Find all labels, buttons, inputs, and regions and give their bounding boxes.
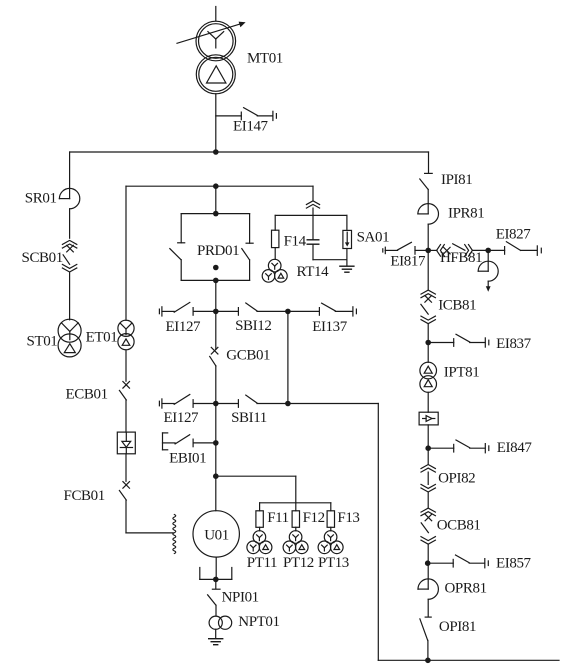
tap-changer arrow MT01 bbox=[177, 22, 246, 44]
bus 2 bbox=[126, 185, 313, 187]
svg-text:PRD01: PRD01 bbox=[197, 243, 239, 259]
PRD01 feeder wire bbox=[215, 186, 217, 213]
svg-text:RT14: RT14 bbox=[297, 264, 330, 280]
disconnector SBI11 bbox=[216, 395, 288, 407]
node neutral bbox=[213, 577, 219, 583]
wire GCB01 to SBI11 row bbox=[215, 366, 217, 404]
transformer ST01 bbox=[58, 319, 81, 357]
svg-text:EI127: EI127 bbox=[164, 410, 200, 426]
label NPI01 bbox=[222, 589, 259, 605]
capacitor C bbox=[307, 240, 319, 260]
wire ECB01 to rectifier bbox=[125, 400, 127, 432]
label SCB01 bbox=[22, 250, 63, 266]
wire row1 to row2 right bbox=[287, 311, 289, 403]
svg-text:FCB01: FCB01 bbox=[64, 488, 105, 504]
label FCB01 bbox=[64, 488, 105, 504]
wire HFB row to ICB81 bbox=[427, 250, 429, 289]
node EI847 row bbox=[425, 445, 431, 451]
wire bus2 to ET01 bbox=[125, 186, 127, 320]
svg-text:IPT81: IPT81 bbox=[444, 365, 480, 381]
breaker ICB81 bbox=[421, 290, 436, 324]
transformer NPT01 bbox=[209, 616, 232, 629]
wire EI837 row to IPT81 bbox=[427, 343, 429, 363]
label F11 bbox=[267, 510, 289, 526]
wire top lead bbox=[215, 7, 217, 22]
wire bus to SR01 bbox=[69, 152, 71, 199]
label EI827 bbox=[496, 227, 532, 243]
label EI127 row1 bbox=[166, 319, 202, 335]
wire bus2 to SA branch bbox=[312, 186, 314, 200]
label EI137 bbox=[312, 319, 348, 335]
node EI837 row bbox=[425, 340, 431, 346]
label F13 bbox=[337, 510, 359, 526]
svg-text:SA01: SA01 bbox=[357, 229, 390, 245]
svg-text:EI147: EI147 bbox=[233, 118, 269, 134]
wire EI857 row to OPR81 bbox=[427, 563, 429, 589]
wire PT branch bbox=[216, 476, 331, 503]
svg-text:HFB81: HFB81 bbox=[440, 250, 482, 266]
earthing switch EI827 bbox=[488, 242, 541, 256]
wire MT01 to bus bbox=[215, 94, 217, 152]
svg-text:SBI12: SBI12 bbox=[235, 318, 271, 334]
fuse F11 bbox=[256, 503, 263, 531]
node PRD01 mid bbox=[213, 265, 219, 271]
node row2-right bbox=[285, 401, 291, 407]
label SBI12 bbox=[235, 318, 271, 334]
node EI857 row bbox=[425, 560, 431, 566]
fuse F14 bbox=[272, 215, 279, 259]
label PT13 bbox=[318, 555, 349, 571]
svg-text:PT11: PT11 bbox=[247, 555, 277, 571]
svg-text:EI857: EI857 bbox=[496, 556, 532, 572]
earthing switch EI147 bbox=[216, 108, 277, 121]
disconnector IPI81 bbox=[420, 173, 432, 189]
wire row2 to EBI01 row bbox=[215, 404, 217, 443]
svg-text:GCB01: GCB01 bbox=[226, 347, 270, 363]
amplifier box bbox=[419, 412, 438, 425]
svg-text:OCB81: OCB81 bbox=[437, 517, 481, 533]
voltage transformer PT13 bbox=[318, 531, 343, 554]
svg-text:ET01: ET01 bbox=[86, 329, 118, 345]
svg-text:PT12: PT12 bbox=[283, 555, 314, 571]
label GCB01 bbox=[226, 347, 270, 363]
wire EBI01 row to PT row bbox=[215, 443, 217, 476]
breaker ECB01 bbox=[119, 382, 129, 401]
disconnector SBI12 bbox=[216, 303, 288, 315]
plug contact SA branch bbox=[306, 201, 319, 208]
voltage transformer PT11 bbox=[247, 531, 272, 554]
label MT01 bbox=[247, 51, 283, 67]
svg-text:OPI81: OPI81 bbox=[439, 619, 476, 635]
reactor IPR81 bbox=[418, 204, 439, 225]
svg-text:ST01: ST01 bbox=[27, 333, 58, 349]
label RT14 bbox=[297, 264, 330, 280]
node row1-right bbox=[285, 309, 291, 315]
label IPI81 bbox=[441, 172, 472, 188]
field winding of U01 bbox=[173, 515, 176, 554]
label EI147 bbox=[233, 118, 269, 134]
svg-text:SBI11: SBI11 bbox=[231, 410, 267, 426]
node bus2-main bbox=[213, 183, 219, 189]
rectifier box bbox=[117, 432, 135, 454]
wire U01 bottom bbox=[215, 557, 217, 579]
voltage transformer RT14 bbox=[262, 259, 287, 282]
label OPI81 bbox=[439, 619, 476, 635]
label ECB01 bbox=[66, 386, 108, 402]
surge arrester SA01 bbox=[343, 215, 352, 266]
wire SCB01 to ST01 bbox=[69, 272, 71, 320]
label U01 bbox=[204, 528, 229, 544]
svg-text:F13: F13 bbox=[337, 510, 359, 526]
earthing switch EI127 row2 bbox=[159, 395, 215, 409]
label IPT81 bbox=[444, 365, 480, 381]
voltage transformer PT12 bbox=[283, 531, 308, 554]
svg-text:EI817: EI817 bbox=[390, 253, 426, 269]
svg-text:MT01: MT01 bbox=[247, 51, 283, 67]
wire HFB right drop bbox=[487, 250, 489, 271]
wire OCB81 to EI857 row bbox=[427, 544, 429, 563]
node row1-main bbox=[213, 309, 219, 315]
label EI847 bbox=[497, 440, 533, 456]
svg-text:NPI01: NPI01 bbox=[222, 589, 259, 605]
svg-text:F12: F12 bbox=[303, 510, 325, 526]
label IPR81 bbox=[448, 205, 484, 221]
label PT11 bbox=[247, 555, 277, 571]
wire rectifier to FCB01 bbox=[125, 454, 127, 482]
label EI127 row2 bbox=[164, 410, 200, 426]
wire row2 to bottom bus bbox=[288, 404, 378, 661]
wire OPI81 to bottom bus bbox=[427, 640, 429, 660]
svg-text:NPT01: NPT01 bbox=[238, 614, 279, 630]
main bus bbox=[70, 151, 429, 153]
label SR01 bbox=[25, 190, 57, 206]
label PT12 bbox=[283, 555, 314, 571]
wire ET01 to ECB01 bbox=[125, 350, 127, 381]
wire bus to IPI81 bbox=[428, 152, 430, 173]
node bottom bus bbox=[425, 658, 431, 664]
disconnector OPI81 blade bbox=[420, 619, 428, 641]
svg-text:F14: F14 bbox=[284, 233, 307, 249]
discharge reactor bbox=[478, 261, 498, 281]
node PRD01 bottom bbox=[213, 278, 219, 284]
svg-text:PT13: PT13 bbox=[318, 555, 349, 571]
ground NPT01 bbox=[209, 639, 223, 645]
wire IPR81 to HFB row bbox=[427, 224, 429, 250]
svg-text:OPI82: OPI82 bbox=[438, 471, 475, 487]
label EBI01 bbox=[169, 450, 206, 466]
label EI817 bbox=[390, 253, 426, 269]
label ST01 bbox=[27, 333, 58, 349]
label F12 bbox=[303, 510, 325, 526]
node row2-main bbox=[213, 401, 219, 407]
label SA01 bbox=[357, 229, 390, 245]
wire U01 top bbox=[215, 476, 217, 511]
svg-text:EBI01: EBI01 bbox=[169, 450, 206, 466]
svg-text:EI837: EI837 bbox=[496, 336, 532, 352]
wire EI847 row to OPI82 bbox=[427, 448, 429, 464]
node EBI01 row bbox=[213, 440, 219, 446]
wire SR01 to SCB01 bbox=[69, 209, 71, 238]
earthing device EBI01 bbox=[163, 433, 216, 450]
label OCB81 bbox=[437, 517, 481, 533]
svg-text:IPI81: IPI81 bbox=[441, 172, 472, 188]
label OPR81 bbox=[445, 581, 487, 597]
wire NPI01 to NPT01 bbox=[215, 605, 217, 616]
svg-text:EI127: EI127 bbox=[166, 319, 202, 335]
label EI857 bbox=[496, 556, 532, 572]
node PRD01 top bbox=[213, 211, 219, 217]
svg-text:EI847: EI847 bbox=[497, 440, 533, 456]
node bus-main bbox=[213, 149, 219, 155]
bottom bus bbox=[378, 659, 559, 661]
earthing switch EI127 row1 bbox=[159, 302, 215, 316]
wire PRD01 to row1 bbox=[215, 280, 217, 311]
generator U01 bbox=[193, 511, 239, 557]
node HFB right bbox=[485, 248, 491, 254]
breaker SCB01 bbox=[62, 240, 76, 272]
wire IPI81 to IPR81 bbox=[427, 189, 429, 214]
wire OPR81 to OPI81 bbox=[425, 599, 431, 617]
drawout link OPI82 bbox=[421, 465, 435, 493]
node PT branch bbox=[213, 473, 219, 479]
wire box to EI847 row bbox=[427, 425, 429, 448]
transformer MT01 bbox=[196, 21, 236, 94]
breaker GCB01 bbox=[210, 347, 218, 366]
label ET01 bbox=[86, 329, 118, 345]
svg-text:U01: U01 bbox=[204, 528, 229, 544]
svg-text:OPR81: OPR81 bbox=[445, 581, 487, 597]
svg-text:ECB01: ECB01 bbox=[66, 386, 108, 402]
transformer IPT81 bbox=[420, 362, 437, 392]
earthing switch EI817 bbox=[383, 242, 428, 254]
svg-text:IPR81: IPR81 bbox=[448, 205, 484, 221]
breaker OCB81 bbox=[421, 508, 435, 544]
label NPT01 bbox=[238, 614, 279, 630]
breaker HFB81 bbox=[428, 244, 488, 256]
breaker FCB01 bbox=[119, 482, 129, 501]
transformer ET01 bbox=[118, 320, 134, 350]
label F14 bbox=[284, 233, 307, 249]
svg-text:SCB01: SCB01 bbox=[22, 250, 63, 266]
earthing switch EI857 bbox=[428, 555, 489, 568]
neutral bracket U01 bbox=[200, 568, 232, 580]
reactor SR01 bbox=[59, 188, 79, 208]
wire SA crossbar bbox=[275, 214, 347, 216]
ground SA01 bbox=[340, 266, 354, 272]
wire OPI82 to OCB81 bbox=[427, 492, 429, 508]
reactor OPR81 bbox=[418, 579, 438, 599]
fuse F12 bbox=[292, 503, 299, 531]
wire FCB01 to field winding bbox=[126, 500, 173, 533]
label ICB81 bbox=[438, 297, 476, 313]
earthing switch EI137 bbox=[288, 303, 357, 316]
wire ICB81 to EI837 row bbox=[427, 324, 429, 343]
label OPI82 bbox=[438, 471, 475, 487]
svg-text:EI827: EI827 bbox=[496, 227, 532, 243]
wire NPT01 to ground bbox=[215, 629, 217, 638]
label EI837 bbox=[496, 336, 532, 352]
wire GCB01 lead upper bbox=[215, 311, 217, 349]
arrow down bbox=[486, 286, 491, 292]
earthing switch EI847 bbox=[428, 440, 489, 453]
label HFB81 bbox=[440, 250, 482, 266]
svg-text:EI137: EI137 bbox=[312, 319, 348, 335]
svg-text:ICB81: ICB81 bbox=[438, 297, 476, 313]
bypass disconnector PRD01 bbox=[170, 214, 253, 281]
wire SA branch mid bbox=[312, 208, 314, 240]
label PRD01 bbox=[197, 243, 239, 259]
earthing switch EI837 bbox=[428, 334, 489, 347]
fuse F13 bbox=[327, 503, 334, 531]
disconnector NPI01 bbox=[208, 589, 220, 605]
wire IPT81 to amplifier box bbox=[427, 392, 429, 412]
wire neutral to NPI01 bbox=[215, 579, 217, 589]
wire reactor to arrow bbox=[487, 281, 489, 286]
wire capacitor to SA01 foot bbox=[313, 259, 347, 261]
node HFB row bbox=[425, 248, 431, 254]
svg-text:SR01: SR01 bbox=[25, 190, 57, 206]
label SBI11 bbox=[231, 410, 267, 426]
svg-text:F11: F11 bbox=[267, 510, 289, 526]
